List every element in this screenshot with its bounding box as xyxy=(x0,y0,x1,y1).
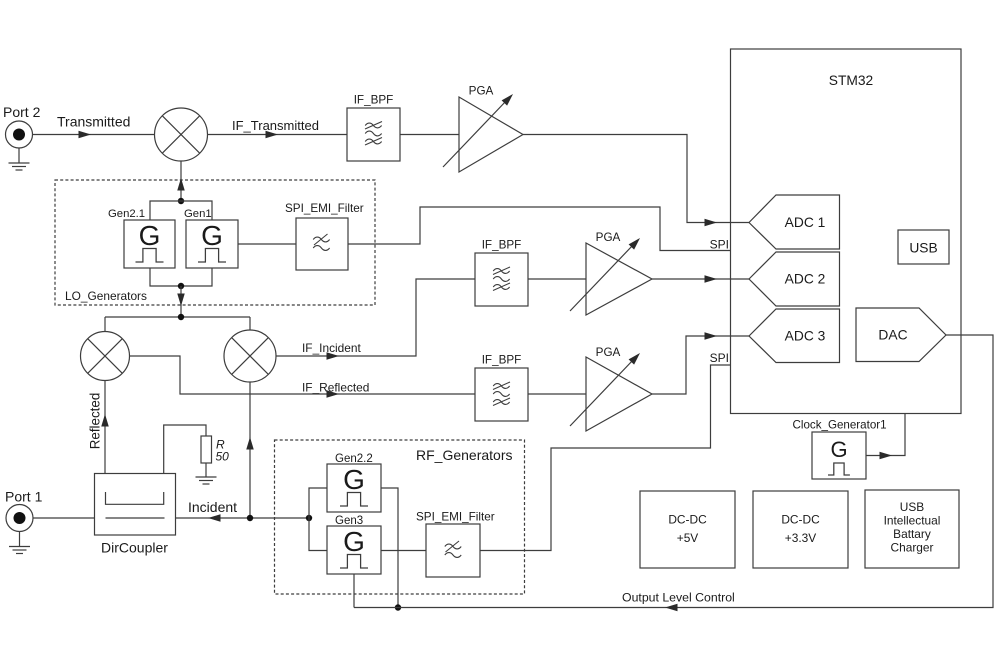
svg-text:G: G xyxy=(201,220,223,251)
svg-text:ADC 3: ADC 3 xyxy=(785,329,826,344)
svg-text:IF_Incident: IF_Incident xyxy=(302,341,362,355)
svg-text:LO_Generators: LO_Generators xyxy=(65,289,147,303)
svg-text:PGA: PGA xyxy=(596,346,621,359)
svg-text:IF_BPF: IF_BPF xyxy=(482,354,522,367)
svg-text:IF_BPF: IF_BPF xyxy=(354,94,394,107)
svg-text:Battary: Battary xyxy=(893,527,931,541)
svg-text:SPI: SPI xyxy=(710,238,729,252)
svg-text:+5V: +5V xyxy=(677,531,699,545)
svg-text:SPI: SPI xyxy=(710,351,729,365)
svg-text:Charger: Charger xyxy=(891,541,934,555)
svg-text:Transmitted: Transmitted xyxy=(57,114,130,130)
svg-text:SPI_EMI_Filter: SPI_EMI_Filter xyxy=(285,202,364,215)
svg-text:DAC: DAC xyxy=(878,328,907,343)
svg-text:ADC 2: ADC 2 xyxy=(785,272,826,287)
svg-text:RF_Generators: RF_Generators xyxy=(416,447,512,463)
svg-text:STM32: STM32 xyxy=(829,73,873,88)
svg-text:PGA: PGA xyxy=(469,85,494,98)
svg-text:IF_Reflected: IF_Reflected xyxy=(302,381,369,395)
svg-text:DC-DC: DC-DC xyxy=(668,513,707,527)
svg-text:Gen1: Gen1 xyxy=(184,208,212,220)
svg-text:ADC 1: ADC 1 xyxy=(785,215,826,230)
svg-text:SPI_EMI_Filter: SPI_EMI_Filter xyxy=(416,511,495,524)
svg-text:50: 50 xyxy=(216,450,230,464)
svg-text:USB: USB xyxy=(900,500,925,514)
svg-text:Gen3: Gen3 xyxy=(335,515,363,527)
svg-text:Incident: Incident xyxy=(188,499,237,515)
svg-text:G: G xyxy=(139,220,161,251)
svg-text:IF_BPF: IF_BPF xyxy=(482,239,522,252)
svg-text:Port 2: Port 2 xyxy=(3,104,41,120)
svg-text:Intellectual: Intellectual xyxy=(884,514,941,528)
svg-text:Output Level Control: Output Level Control xyxy=(622,591,735,605)
svg-text:G: G xyxy=(343,526,365,557)
svg-text:PGA: PGA xyxy=(596,231,621,244)
svg-text:Gen2.1: Gen2.1 xyxy=(108,208,145,220)
svg-text:G: G xyxy=(830,437,847,462)
svg-text:Gen2.2: Gen2.2 xyxy=(335,453,373,465)
svg-text:G: G xyxy=(343,464,365,495)
svg-text:DirCoupler: DirCoupler xyxy=(101,540,168,556)
svg-text:IF_Transmitted: IF_Transmitted xyxy=(232,118,319,133)
svg-text:Clock_Generator1: Clock_Generator1 xyxy=(793,419,887,432)
svg-text:USB: USB xyxy=(909,241,937,256)
svg-text:+3.3V: +3.3V xyxy=(785,531,816,545)
svg-text:DC-DC: DC-DC xyxy=(781,513,820,527)
svg-text:Reflected: Reflected xyxy=(88,393,103,450)
svg-text:Port 1: Port 1 xyxy=(5,489,43,505)
